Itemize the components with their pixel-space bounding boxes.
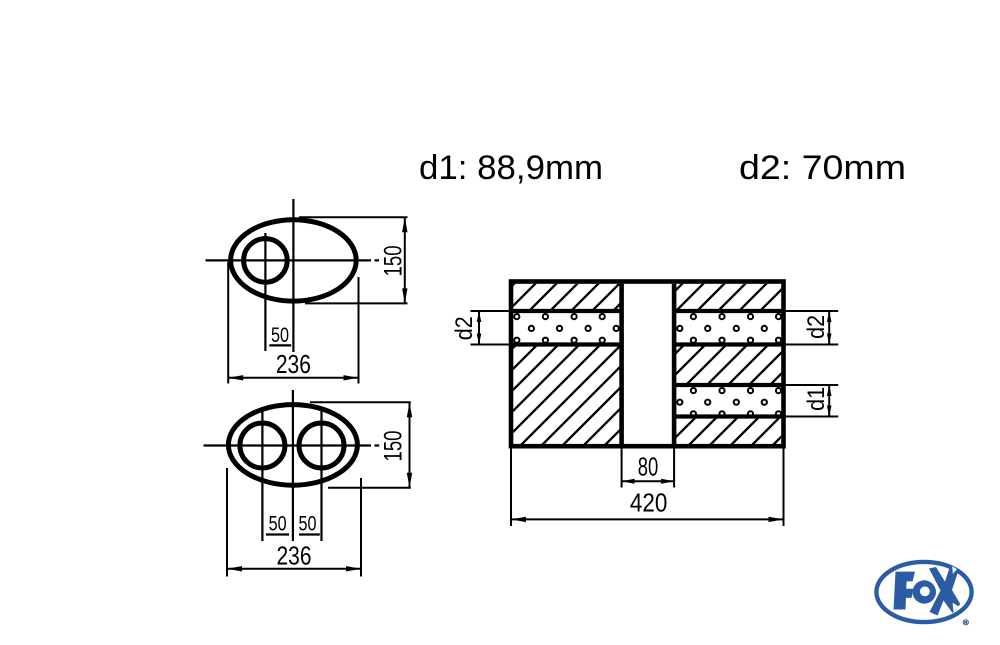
dim 150 lower extension top: [310, 401, 411, 403]
dim d1 right dimension line: [828, 385, 830, 417]
section left lower hatch zone: [513, 345, 620, 445]
upper horizontal centerline: [206, 259, 380, 261]
dim 150 upper arrow down: [402, 288, 407, 303]
dim 420 extension left: [510, 446, 512, 526]
lower left pipe circle: [240, 423, 285, 468]
section right middle hatch zone: [676, 345, 781, 386]
upper oval shell outline: [231, 220, 357, 301]
dim 420 dimension line: [511, 518, 784, 520]
dim 80 arrow left: [622, 479, 635, 484]
dim 236 lower extension right: [360, 478, 362, 577]
lower vertical centerline: [292, 390, 294, 541]
svg-text:236: 236: [277, 540, 312, 570]
lower right pipe centerline: [320, 409, 322, 542]
dim 80 dimension line: [622, 480, 675, 482]
right d1 pipe top wall: [674, 383, 783, 387]
right d2 pipe bottom wall: [674, 342, 783, 346]
dim 150 upper arrow up: [402, 217, 407, 232]
svg-text:d2: d2: [451, 316, 478, 340]
svg-text:d2: 70mm: d2: 70mm: [739, 149, 906, 187]
dim 150 lower arrow down: [407, 473, 412, 488]
lower left pipe centerline: [261, 409, 263, 542]
dim d1 right arrow down: [827, 406, 832, 417]
dim d1 right arrow up: [827, 385, 832, 396]
dim d1 right extension top: [784, 384, 839, 386]
dim 150 upper extension bottom: [305, 302, 408, 304]
FOX logo: [876, 562, 971, 625]
section right bottom hatch zone: [676, 417, 781, 445]
right d2 pipe top wall: [674, 309, 783, 313]
svg-text:50: 50: [271, 324, 289, 347]
dim 80 extension left: [621, 446, 623, 487]
dim 236 upper arrow right: [344, 375, 359, 380]
svg-text:80: 80: [638, 451, 659, 481]
dim 236 upper arrow left: [228, 375, 243, 380]
dim d2 left arrow up: [477, 311, 482, 322]
lower horizontal centerline: [204, 444, 380, 446]
dim 420 extension right: [783, 446, 785, 526]
right d1 pipe bottom wall: [674, 414, 783, 418]
dim d2 right dimension line: [828, 311, 830, 345]
svg-text:420: 420: [630, 488, 668, 518]
dim d2 left dimension line: [478, 311, 480, 345]
svg-text:150: 150: [380, 431, 408, 462]
dim 150 upper extension top: [299, 216, 408, 218]
dim 236 lower arrow left: [227, 566, 242, 571]
dim d2 left arrow down: [477, 334, 482, 345]
svg-text:236: 236: [276, 349, 311, 379]
svg-text:150: 150: [379, 245, 407, 276]
svg-text:50: 50: [269, 513, 287, 536]
dim 50 upper dimension line: [269, 344, 291, 346]
upper pipe centerline: [264, 233, 266, 351]
dim 236 upper extension left: [227, 262, 229, 384]
dim 80 arrow right: [661, 479, 674, 484]
dim 150 lower extension bottom: [328, 487, 411, 489]
dim 50 lower right line: [299, 533, 320, 535]
dim 236 upper extension right: [358, 277, 360, 384]
dim 150 lower dimension line: [409, 402, 411, 488]
dim d2 right arrow down: [827, 334, 832, 345]
dim 420 arrow left: [511, 517, 526, 522]
section right top hatch zone: [676, 284, 781, 311]
svg-text:d1: 88,9mm: d1: 88,9mm: [419, 149, 603, 187]
svg-text:d1: d1: [803, 387, 830, 411]
upper vertical centerline: [292, 199, 294, 352]
dim d2 right extension top: [784, 310, 839, 312]
dim 236 upper dimension line: [228, 377, 358, 379]
svg-text:50: 50: [299, 513, 317, 536]
upper inlet pipe circle d1: [244, 239, 288, 283]
dim d2 right arrow up: [827, 311, 832, 322]
left d2 pipe top wall: [511, 309, 622, 313]
dim 236 lower arrow right: [346, 566, 361, 571]
dim 50 lower left line: [266, 533, 289, 535]
section outer body rectangle: [511, 282, 784, 447]
dim 236 lower dimension line: [227, 568, 361, 570]
dim d2 right extension bottom: [784, 344, 839, 346]
dim d1 right extension bottom: [784, 416, 839, 418]
chamber left wall: [619, 284, 624, 444]
perforated pipe holes: [514, 314, 781, 416]
dim 150 upper dimension line: [404, 217, 406, 303]
lower oval shell outline: [228, 405, 357, 486]
lower right pipe circle: [299, 423, 344, 468]
section left top hatch zone: [513, 284, 620, 311]
dim 150 lower arrow up: [407, 402, 412, 417]
dim 420 arrow right: [769, 517, 784, 522]
left d2 pipe bottom wall: [511, 342, 622, 346]
dim 236 lower extension left: [226, 468, 228, 577]
svg-text:d2: d2: [803, 315, 830, 339]
chamber right wall: [672, 284, 677, 444]
dim 80 extension right: [673, 446, 675, 487]
dim d2 left extension bottom: [471, 344, 512, 346]
dim d2 left extension top: [471, 310, 512, 312]
